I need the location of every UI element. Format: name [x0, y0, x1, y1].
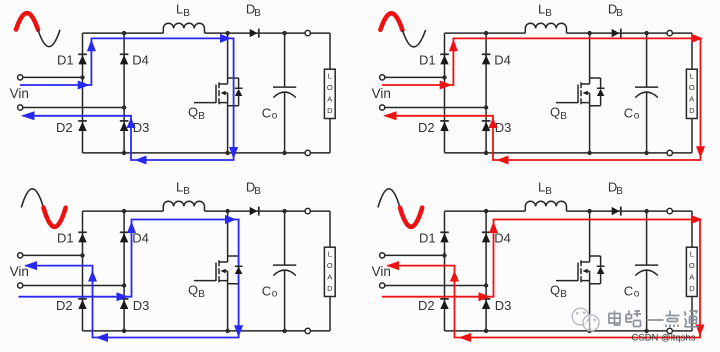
watermark text dianlu yidiantong (pseudo glyphs): [609, 311, 699, 328]
circuit panel 1: [10, 2, 336, 156]
current path (blue): Vin+ through D1, LB, QB, D3: [20, 38, 234, 160]
AC source sine (positive half red): [16, 13, 38, 30]
current path (red): Vin- through D4, LB, DB, load, D2: [382, 220, 700, 338]
circuit panel 3: [10, 180, 336, 334]
svg-text:CSDN @ltqshs: CSDN @ltqshs: [632, 333, 696, 344]
arrowheads red panel 4: [386, 215, 705, 342]
watermark text CSDN: [632, 333, 696, 344]
AC source sine (negative half red): [21, 189, 43, 208]
arrowheads blue panel 3: [24, 215, 243, 342]
AC source sine (positive half red): [380, 13, 402, 30]
arrowheads red panel 2: [383, 34, 705, 165]
current path (blue): Vin- through D4, LB, QB, D2: [19, 220, 239, 338]
watermark logo (two bubble faces): [572, 308, 599, 331]
circuit panel 2: [372, 2, 698, 156]
body diode of QB redrawn over path: [597, 266, 605, 274]
AC source sine (negative half red): [378, 189, 400, 208]
arrowheads blue panel 1: [21, 34, 238, 165]
body diode of QB redrawn over path: [235, 266, 243, 274]
current path (red): Vin+ through D1, LB, DB, load, D3: [382, 38, 701, 160]
circuit panel 4: [372, 180, 698, 334]
